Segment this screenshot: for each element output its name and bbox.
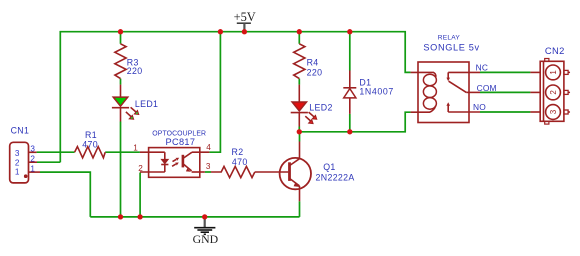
svg-text:2: 2 [549,90,558,95]
wire relay NO to CN2 pin3 [480,111,530,113]
svg-text:R2: R2 [232,147,244,157]
wire CN1 pin2 to +5V drop [37,161,60,163]
svg-text:4: 4 [206,143,211,152]
svg-text:2N2222A: 2N2222A [316,172,355,182]
junction top bus +5V [242,29,247,34]
svg-text:470: 470 [82,140,98,150]
wire LED1 to bottom bus [120,122,122,217]
wire relay COM to CN2 pin2 [480,91,530,93]
ground GND symbol [193,217,219,246]
svg-text:GND: GND [193,232,219,246]
junction top bus R3 [118,29,123,34]
svg-text:1: 1 [549,70,558,75]
wire CN1 pin3 to R1 [37,151,75,153]
wire R1 to opto pin1 [105,151,140,153]
transistor Q1 2N2222A [255,142,355,202]
wire opto pin2 to bottom bus [139,173,141,217]
svg-text:SONGLE 5v: SONGLE 5v [423,43,479,53]
optocoupler U1 PC817 [140,130,210,177]
svg-text:220: 220 [307,67,323,77]
wire relay coil bottom to collector node [299,112,410,132]
svg-text:1: 1 [15,168,20,177]
svg-text:COM: COM [477,83,497,93]
junction bottom bus opto pin2 [137,214,142,219]
wire R3 to LED1 [120,79,122,85]
wire R4 to LED2 [298,79,300,85]
relay K1 SONGLE 5v [411,35,480,123]
wire D1 bottom [349,114,351,132]
svg-text:3: 3 [15,149,20,158]
svg-text:2: 2 [138,164,143,173]
connector CN2 [530,45,570,124]
svg-text:3: 3 [206,162,211,171]
svg-text:2: 2 [15,158,20,167]
junction top bus R4 [297,29,302,34]
resistor R1 [75,130,106,158]
resistor R4 [294,44,323,79]
wire bottom GND bus [90,216,299,218]
svg-text:CN1: CN1 [11,125,30,135]
svg-text:1N4007: 1N4007 [359,86,393,96]
wire opto pin4 to +5V bus [209,32,220,153]
svg-text:PC817: PC817 [166,137,196,147]
svg-text:LED2: LED2 [309,102,332,112]
junction bottom bus GND [202,214,207,219]
supply +5V symbol [234,10,256,32]
junction top bus opto pin4 [218,29,223,34]
svg-text:1: 1 [133,143,138,152]
wire R4 top [298,32,300,44]
wire top +5V bus [60,32,410,163]
svg-text:NC: NC [476,62,489,72]
svg-text:LED1: LED1 [135,99,158,109]
svg-text:2: 2 [30,155,35,164]
resistor R3 [115,44,143,79]
svg-text:CN2: CN2 [545,45,565,56]
wire R3 top [120,32,122,44]
connector CN1 [10,125,40,183]
svg-text:NO: NO [473,102,486,112]
svg-text:1: 1 [30,164,35,173]
wire CN1 pin1 to bottom bus [40,172,90,217]
svg-text:3: 3 [549,109,558,114]
wire D1 top [349,32,351,71]
svg-text:3: 3 [30,145,35,154]
svg-text:RELAY: RELAY [438,35,461,42]
wire Q1 emitter to bottom bus [299,201,301,217]
LED LED1 [112,85,158,122]
junction top bus D1 [347,29,352,34]
diode D1 1N4007 [343,71,394,114]
svg-text:470: 470 [232,157,248,167]
svg-text:R4: R4 [307,58,319,68]
resistor R2 [211,147,255,177]
wire opto pin3 to R2 [205,171,211,173]
junction collector node D1 [347,129,352,134]
svg-text:Q1: Q1 [323,162,335,172]
junction collector node LED2 [297,129,302,134]
wire relay NC to CN2 pin1 [480,71,530,73]
wire LED2 to collector node [298,127,300,132]
junction bottom bus LED1 [118,214,123,219]
svg-text:220: 220 [127,66,143,76]
LED LED2 [291,85,333,127]
wire Q1 collector [299,132,301,142]
svg-text:+5V: +5V [234,10,256,24]
